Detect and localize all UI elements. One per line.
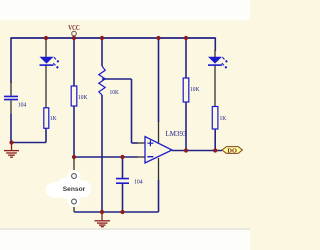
node: R4/output net [213,148,217,152]
background (photo white margins) [0,0,250,250]
wire: op-amp ground pin riser [158,180,160,212]
wire: wiper vertical down to non-inverting input [131,79,133,143]
node: left ground junction [9,140,13,144]
ground (center bottom) [95,212,111,227]
wire: inverting input net (sensor node to op-amp) [74,156,138,158]
bottom edge shadow line [0,228,250,230]
resistor R2 1K (below LED1) [44,108,57,129]
wire: bottom ground rail [74,211,159,213]
svg-text:DO: DO [227,147,237,154]
junction dots (bus and nets) [9,36,217,214]
svg-text:LM393: LM393 [166,129,187,138]
pin: op-amp V+ power pin [158,121,160,143]
svg-text:10K: 10K [110,89,120,96]
pin: LED1 anode [45,39,47,58]
LED D2 (right, blue) [208,57,228,69]
svg-text:10K: 10K [190,86,200,93]
resistor R1 10K (VCC divider top) [71,86,87,106]
svg-text:1K: 1K [220,115,227,122]
node: bus/VCC/R1 [72,36,76,40]
svg-text:1K: 1K [50,115,57,122]
resistor R4 1K (below LED2) [212,107,226,130]
svg-text:10K: 10K [78,94,88,101]
pin: sensor bottom terminal lead [73,205,75,213]
node: R3/output net [184,148,188,152]
pin: LED2 anode [214,50,216,57]
VCC power port [68,24,80,36]
node: sensor/R1/inverting net [72,155,76,159]
pin: LED1 cathode to R2 [45,66,47,108]
sensor terminal (bottom) [72,199,77,204]
op-amp U1 LM393 [145,129,187,163]
node: C2/inverting net [120,155,124,159]
wire: R2 bottom to corner [45,128,47,143]
svg-text:104: 104 [18,102,27,109]
node: bus/R3 [184,36,188,40]
pin: LED2 cathode to R4 [214,66,216,107]
wire: left rail lower (C1 to ground node) [10,114,12,143]
node: bus/LED1 [44,36,48,40]
wire: R1 bottom to sensor node [73,106,75,157]
wire: bottom-left horizontal (ground node to R2) [11,142,46,144]
pin: op-amp non-inverting input pin [137,142,146,144]
sensor terminal (top) [72,174,77,179]
wire: output net horizontal to DO port [172,150,222,152]
svg-text:104: 104 [134,179,143,186]
pin: C1 top [10,82,12,96]
ground (left) [4,143,19,158]
wire: C2 bottom branch to ground rail [122,184,124,212]
wire: top VCC bus [11,37,215,39]
wire: pot branch upper (bus to RP top) [101,37,103,66]
capacitor C2 104 (inverting input) [116,179,143,186]
node: C2/ground rail [120,210,124,214]
svg-text:VCC: VCC [68,24,80,32]
wire: wiper into op-amp plus [132,142,138,144]
wire: pot wiper horizontal [102,78,132,80]
node: bus/pot [100,36,104,40]
wire: C2 top branch from inverting net [122,157,124,178]
pin: op-amp inverting input pin [137,156,146,158]
wire: R4 bottom to output net [214,129,216,151]
capacitor C1 104 (left rail) [4,96,27,108]
wire: R3 bottom to output net [185,102,187,151]
node: bus/op-amp power [156,36,160,40]
LED D1 (left, blue) [40,57,60,69]
wire: VCC branch to R1 top [73,37,75,86]
resistor R3 10K (output pull-up) [183,78,199,102]
pin: C1 bottom [10,101,12,115]
DO output port [222,147,242,155]
svg-text:Sensor: Sensor [63,186,86,193]
wire: op-amp power branch from bus [158,37,160,122]
wire: pot bottom to bottom rail [101,95,103,212]
sensor white halo [46,170,92,207]
node: pot/ground rail [100,210,104,214]
background: schematic cream paper [0,21,250,229]
pin: sensor top terminal lead [73,157,75,173]
wire: pull-up branch (bus to R3 top) [185,37,187,78]
pin: op-amp ground pin [158,158,160,181]
wire: right rail corner (bus down to LED2) [214,37,216,51]
wire: left rail upper (bus to C1) [10,37,12,83]
potentiometer RP 10K (zigzag) [99,66,119,96]
